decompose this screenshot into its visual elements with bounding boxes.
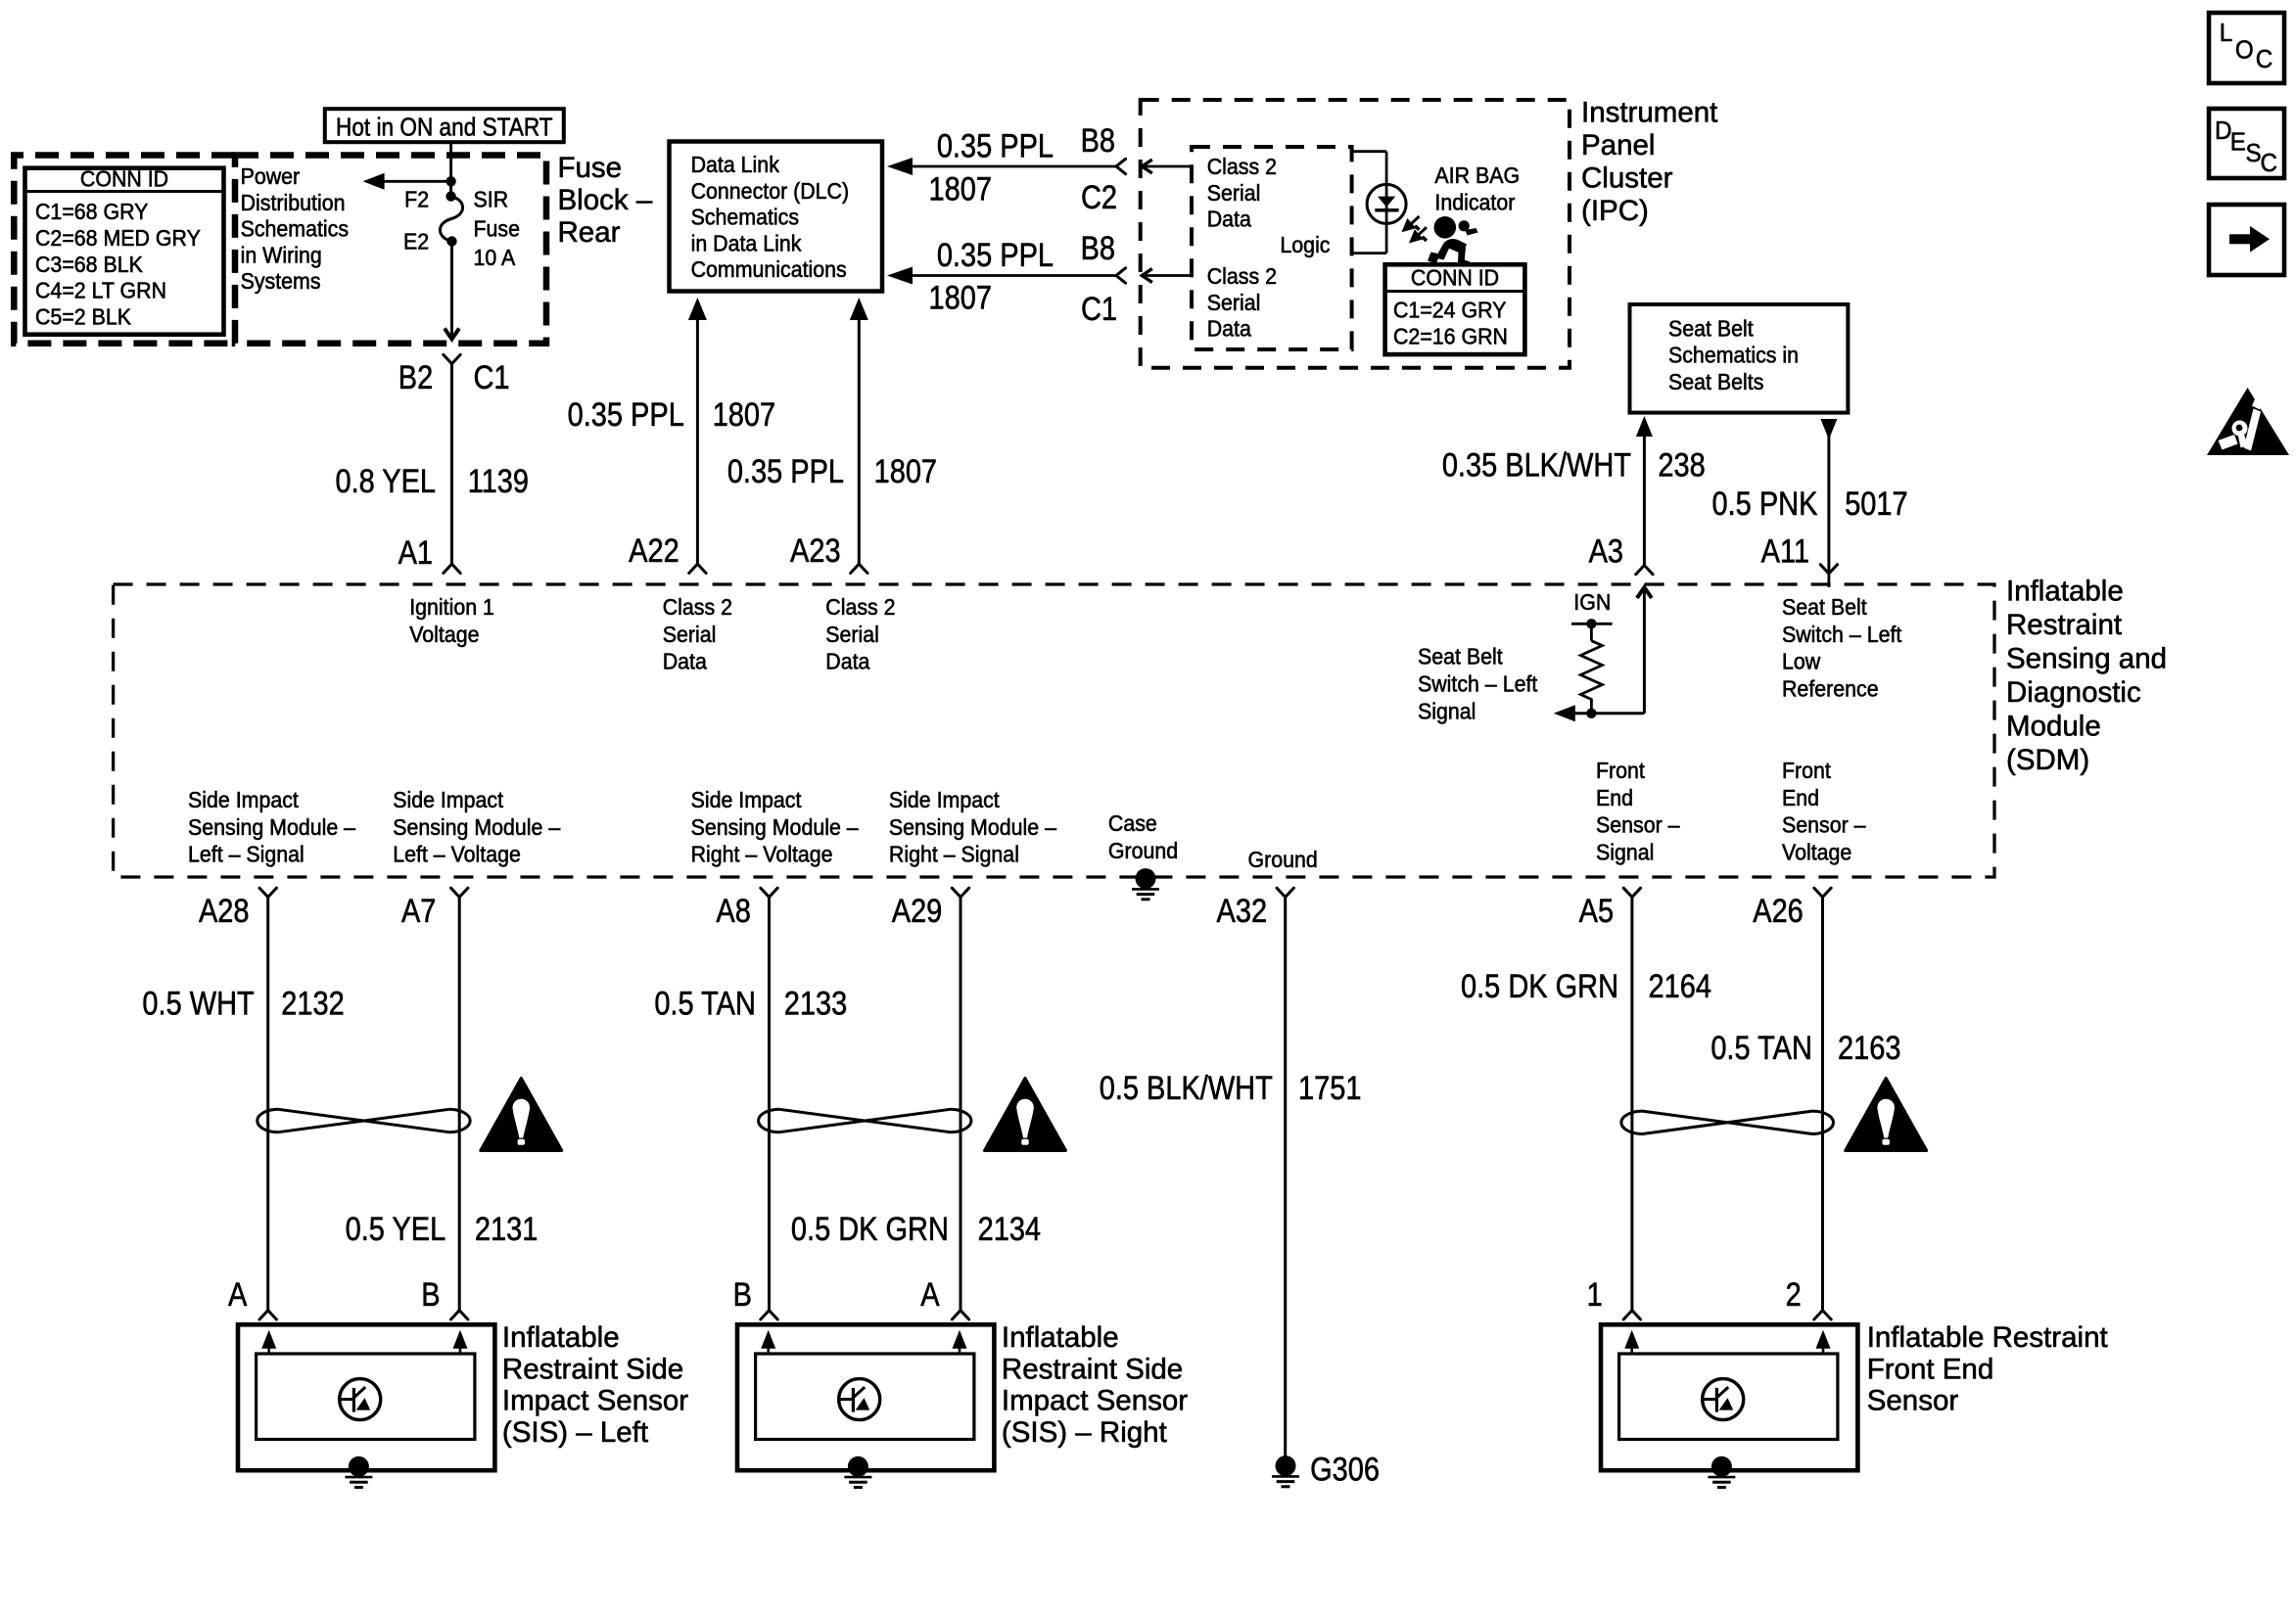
svg-text:0.35 PPL: 0.35 PPL	[937, 236, 1054, 274]
svg-text:0.5 TAN: 0.5 TAN	[1710, 1029, 1812, 1067]
caution triangle (front sensor)	[1846, 1079, 1927, 1151]
Data Link Connector (DLC) reference box	[670, 142, 883, 292]
svg-text:Block –: Block –	[558, 184, 653, 216]
svg-text:Front End: Front End	[1867, 1353, 1994, 1385]
svg-text:Instrument: Instrument	[1581, 97, 1717, 129]
svg-text:C1=68 GRY: C1=68 GRY	[35, 199, 149, 224]
svg-text:Connector (DLC): Connector (DLC)	[691, 178, 850, 204]
svg-text:Ignition 1: Ignition 1	[409, 594, 494, 620]
svg-text:Class 2: Class 2	[1207, 154, 1277, 179]
svg-text:1: 1	[1587, 1275, 1603, 1314]
svg-text:B8: B8	[1081, 229, 1115, 267]
wire A5 0.5 DK GRN 2164	[1630, 898, 1633, 1311]
svg-text:A8: A8	[716, 891, 750, 929]
svg-text:A1: A1	[398, 533, 433, 572]
connector fork at SDM bottom x=273.7	[259, 888, 276, 897]
DESC nav icon	[2209, 109, 2284, 178]
svg-text:A26: A26	[1753, 891, 1804, 929]
svg-text:SIR: SIR	[474, 187, 509, 212]
svg-text:0.35 BLK/WHT: 0.35 BLK/WHT	[1442, 445, 1631, 484]
svg-text:Class 2: Class 2	[1207, 263, 1277, 289]
inflatable restraint side impact sensor right	[737, 1324, 994, 1470]
svg-text:(IPC): (IPC)	[1581, 195, 1649, 227]
svg-text:End: End	[1782, 785, 1819, 810]
svg-text:Schematics: Schematics	[241, 216, 349, 242]
svg-text:Sensing Module –: Sensing Module –	[188, 814, 356, 840]
connector pin A1 into SDM	[444, 564, 460, 573]
svg-text:Side Impact: Side Impact	[691, 787, 802, 812]
svg-text:0.5 TAN: 0.5 TAN	[654, 984, 756, 1022]
svg-text:Sensor –: Sensor –	[1596, 812, 1680, 838]
svg-text:Communications: Communications	[691, 256, 847, 282]
wire A22 to DLC with arrow	[688, 298, 707, 320]
svg-text:238: 238	[1658, 445, 1705, 484]
svg-text:Rear: Rear	[558, 216, 621, 249]
svg-text:Sensor –: Sensor –	[1782, 812, 1866, 838]
svg-text:Front: Front	[1782, 758, 1831, 783]
svg-text:Sensing Module –: Sensing Module –	[691, 814, 860, 840]
svg-text:Right – Signal: Right – Signal	[889, 842, 1019, 867]
wire class 2 serial data (IPC pin C1 to DLC)	[887, 267, 913, 285]
wire A7 0.5 YEL 2131	[458, 898, 461, 1311]
svg-text:Signal: Signal	[1418, 699, 1476, 724]
LOC nav icon	[2209, 13, 2284, 83]
svg-text:End: End	[1596, 785, 1633, 810]
svg-text:0.5 PNK: 0.5 PNK	[1712, 485, 1818, 523]
svg-text:Sensor: Sensor	[1867, 1385, 1959, 1417]
svg-text:0.35 PPL: 0.35 PPL	[727, 452, 844, 490]
svg-text:A28: A28	[199, 891, 250, 929]
wire from fuse to fuse block edge	[450, 242, 453, 340]
svg-text:CONN ID: CONN ID	[1411, 265, 1499, 291]
svg-text:A32: A32	[1217, 891, 1268, 929]
svg-text:A: A	[920, 1275, 940, 1314]
svg-text:0.35 PPL: 0.35 PPL	[568, 395, 684, 434]
svg-text:A3: A3	[1589, 531, 1623, 570]
inflatable restraint side impact sensor left	[238, 1324, 494, 1470]
branch arrow to power distribution schematics	[373, 180, 451, 183]
wire A32 0.5 BLK/WHT 1751 to G306	[1284, 898, 1287, 1457]
svg-text:Logic: Logic	[1280, 232, 1330, 257]
svg-text:CONN ID: CONN ID	[80, 166, 168, 192]
svg-text:Serial: Serial	[663, 622, 717, 647]
svg-text:0.5 WHT: 0.5 WHT	[142, 984, 254, 1022]
svg-text:Schematics: Schematics	[691, 205, 799, 230]
svg-text:Impact Sensor: Impact Sensor	[1002, 1385, 1188, 1417]
svg-text:Power: Power	[241, 163, 301, 189]
svg-text:1807: 1807	[874, 452, 937, 490]
air bag pictograph	[1434, 216, 1457, 239]
pin A3 internal arrow	[1637, 587, 1652, 598]
internal wire to seat belt switch signal	[1570, 712, 1644, 715]
fuse block dashed enclosure (left compartment with CONN ID)	[14, 156, 235, 344]
twisted pair (SIS right)	[759, 1109, 779, 1132]
svg-text:C1: C1	[1081, 290, 1117, 328]
svg-text:(SIS) – Left: (SIS) – Left	[502, 1416, 648, 1449]
svg-text:Inflatable: Inflatable	[2006, 576, 2124, 608]
seat belt schematics reference box	[1630, 304, 1849, 413]
svg-text:1139: 1139	[468, 462, 529, 500]
svg-text:Data: Data	[663, 649, 708, 674]
svg-text:2: 2	[1786, 1275, 1802, 1314]
svg-text:Side Impact: Side Impact	[393, 787, 503, 812]
IPC logic inner dashed box	[1192, 147, 1352, 349]
CONN ID table (IPC connectors)	[1385, 264, 1525, 354]
Instrument Panel Cluster dashed enclosure	[1141, 100, 1570, 368]
wire from Hot box down to fuse	[449, 142, 452, 196]
svg-text:Serial: Serial	[1207, 290, 1261, 315]
svg-text:C: C	[2261, 149, 2277, 177]
svg-text:Data Link: Data Link	[691, 152, 780, 177]
svg-text:Restraint: Restraint	[2006, 609, 2122, 641]
svg-text:Seat Belt: Seat Belt	[1782, 594, 1867, 620]
svg-text:A23: A23	[790, 531, 841, 570]
svg-text:Inflatable: Inflatable	[1002, 1321, 1119, 1354]
inflatable restraint front end sensor	[1601, 1324, 1857, 1470]
svg-text:Ground: Ground	[1248, 847, 1318, 872]
svg-text:E: E	[2230, 128, 2246, 157]
svg-text:Left – Voltage: Left – Voltage	[393, 842, 521, 867]
svg-text:Data: Data	[825, 649, 870, 674]
svg-text:Restraint Side: Restraint Side	[502, 1353, 683, 1385]
svg-text:Impact Sensor: Impact Sensor	[502, 1385, 688, 1417]
svg-text:B: B	[421, 1275, 440, 1314]
svg-text:Signal: Signal	[1596, 840, 1654, 865]
svg-text:Inflatable: Inflatable	[502, 1321, 620, 1354]
svg-text:Serial: Serial	[1207, 180, 1261, 206]
power feed label box "Hot in ON and START"	[325, 109, 564, 142]
svg-text:2132: 2132	[281, 984, 344, 1022]
svg-text:Inflatable Restraint: Inflatable Restraint	[1867, 1321, 2108, 1354]
svg-text:1807: 1807	[929, 169, 992, 208]
svg-text:Ground: Ground	[1108, 838, 1178, 863]
svg-text:C2=16 GRN: C2=16 GRN	[1393, 324, 1508, 349]
svg-text:Case: Case	[1108, 810, 1157, 836]
svg-text:Class 2: Class 2	[663, 594, 732, 620]
svg-text:B: B	[733, 1275, 752, 1314]
svg-text:2131: 2131	[475, 1210, 538, 1248]
CONN ID table (fuse block connectors)	[25, 168, 224, 335]
connector B2/C1 (fuse block to harness)	[444, 354, 460, 363]
svg-text:(SIS) – Right: (SIS) – Right	[1002, 1416, 1167, 1449]
svg-text:Low: Low	[1782, 649, 1821, 674]
svg-text:Seat Belt: Seat Belt	[1668, 316, 1754, 342]
connector fork at SDM bottom x=785.5	[761, 888, 777, 897]
svg-text:Module: Module	[2006, 711, 2101, 743]
svg-text:D: D	[2215, 116, 2231, 145]
LED emission arrows	[1404, 216, 1427, 241]
next-page arrow icon	[2209, 205, 2284, 275]
airbag warning triangle icon	[2207, 388, 2289, 455]
wire 0.5 PNK 5017 from seat belt schematics	[1820, 419, 1837, 439]
svg-text:2134: 2134	[978, 1210, 1041, 1248]
svg-text:C1=24 GRY: C1=24 GRY	[1393, 298, 1507, 323]
svg-text:Voltage: Voltage	[1782, 840, 1851, 865]
caution triangle (SIS left)	[481, 1079, 562, 1151]
connector C1 at IPC boundary	[1116, 268, 1126, 283]
svg-text:2163: 2163	[1838, 1029, 1900, 1067]
connector fork at SDM bottom x=1666.9	[1623, 888, 1640, 897]
svg-text:S: S	[2246, 139, 2262, 167]
wire 0.35 BLK/WHT 238 to seat belt schematics	[1636, 416, 1653, 437]
svg-text:Right – Voltage: Right – Voltage	[691, 842, 833, 867]
svg-text:L: L	[2220, 19, 2232, 47]
svg-text:Data: Data	[1207, 316, 1252, 342]
seat belt switch pull-up resistor	[1590, 624, 1593, 640]
svg-text:A5: A5	[1579, 891, 1614, 929]
svg-text:Data: Data	[1207, 207, 1252, 232]
svg-text:in Data Link: in Data Link	[691, 231, 803, 256]
svg-text:Front: Front	[1596, 758, 1645, 783]
svg-text:0.5 DK GRN: 0.5 DK GRN	[791, 1210, 949, 1248]
twisted pair (SIS left)	[258, 1109, 278, 1132]
fuse SIR Fuse 10 A (F2/E2)	[445, 191, 455, 201]
svg-text:O: O	[2235, 36, 2254, 65]
svg-text:1807: 1807	[929, 278, 992, 316]
svg-text:B8: B8	[1081, 121, 1115, 160]
svg-text:Distribution: Distribution	[241, 190, 346, 215]
svg-text:Schematics in: Schematics in	[1668, 343, 1799, 368]
connector fork at SDM bottom x=1861.5	[1814, 888, 1831, 897]
connector fork at SDM bottom x=981	[952, 888, 968, 897]
svg-text:0.8 YEL: 0.8 YEL	[335, 462, 436, 500]
svg-text:0.35 PPL: 0.35 PPL	[937, 126, 1054, 164]
AIR BAG indicator LED circuit	[1352, 150, 1387, 153]
svg-text:C: C	[2256, 46, 2273, 74]
svg-text:Fuse: Fuse	[558, 152, 623, 184]
wire A8 0.5 TAN 2133	[768, 898, 771, 1311]
svg-text:C5=2 BLK: C5=2 BLK	[35, 304, 131, 330]
svg-text:0.5 YEL: 0.5 YEL	[346, 1210, 446, 1248]
svg-text:Seat Belt: Seat Belt	[1418, 644, 1503, 670]
svg-text:IGN: IGN	[1573, 589, 1611, 615]
svg-text:C4=2 LT GRN: C4=2 LT GRN	[35, 278, 166, 303]
svg-text:F2: F2	[404, 187, 429, 212]
SDM dashed enclosure	[114, 584, 1994, 877]
ground G306	[1276, 1455, 1296, 1476]
svg-text:Systems: Systems	[241, 268, 321, 294]
svg-text:Class 2: Class 2	[825, 594, 895, 620]
svg-text:C1: C1	[474, 358, 510, 396]
svg-text:(SDM): (SDM)	[2006, 744, 2089, 776]
svg-text:0.5 BLK/WHT: 0.5 BLK/WHT	[1100, 1069, 1273, 1107]
svg-text:Sensing and: Sensing and	[2006, 643, 2167, 675]
svg-text:5017: 5017	[1845, 485, 1907, 523]
svg-text:A11: A11	[1761, 531, 1809, 570]
svg-text:G306: G306	[1310, 1450, 1380, 1488]
wire A29 0.5 DK GRN 2134	[960, 898, 962, 1311]
connector fork at SDM bottom x=469.2	[451, 888, 468, 897]
svg-text:1807: 1807	[713, 395, 775, 434]
svg-text:C2: C2	[1081, 178, 1117, 216]
svg-text:Seat Belts: Seat Belts	[1668, 369, 1763, 394]
svg-text:Panel: Panel	[1581, 129, 1655, 162]
svg-text:A22: A22	[629, 531, 679, 570]
svg-text:C2=68 MED GRY: C2=68 MED GRY	[35, 225, 201, 251]
svg-text:Serial: Serial	[825, 622, 879, 647]
svg-text:2133: 2133	[784, 984, 847, 1022]
caution triangle (SIS right)	[985, 1079, 1066, 1151]
svg-text:Restraint Side: Restraint Side	[1002, 1353, 1183, 1385]
connector fork at SDM bottom x=1312.7	[1277, 888, 1293, 897]
svg-text:Side Impact: Side Impact	[889, 787, 1000, 812]
svg-text:AIR BAG: AIR BAG	[1434, 162, 1520, 188]
svg-text:Sensing Module –: Sensing Module –	[889, 814, 1057, 840]
svg-text:Diagnostic: Diagnostic	[2006, 676, 2141, 709]
svg-text:Left – Signal: Left – Signal	[188, 842, 305, 867]
wire A23 to DLC with arrow	[850, 298, 868, 320]
svg-text:2164: 2164	[1649, 967, 1711, 1005]
svg-text:Side Impact: Side Impact	[188, 787, 299, 812]
svg-text:C3=68 BLK: C3=68 BLK	[35, 252, 143, 277]
svg-text:10 A: 10 A	[474, 245, 516, 270]
svg-text:Fuse: Fuse	[474, 216, 521, 242]
wire class 2 serial data (IPC pin C2 to DLC)	[887, 158, 913, 175]
svg-text:Switch – Left: Switch – Left	[1418, 671, 1537, 697]
wire A26 0.5 TAN 2163	[1821, 898, 1824, 1311]
svg-text:Sensing Module –: Sensing Module –	[393, 814, 561, 840]
twisted pair (front end sensor)	[1621, 1111, 1643, 1133]
connector C2 at IPC boundary	[1116, 159, 1126, 173]
svg-text:0.5 DK GRN: 0.5 DK GRN	[1461, 967, 1618, 1005]
svg-text:Hot in ON and START: Hot in ON and START	[336, 114, 553, 142]
svg-text:E2: E2	[403, 229, 429, 254]
svg-text:B2: B2	[398, 358, 433, 396]
wire A28 0.5 WHT 2132	[266, 898, 269, 1311]
svg-text:A29: A29	[892, 891, 943, 929]
svg-text:Switch – Left: Switch – Left	[1782, 622, 1901, 647]
svg-text:in Wiring: in Wiring	[241, 243, 322, 268]
svg-text:Reference: Reference	[1782, 676, 1879, 702]
IGN rail	[1571, 623, 1613, 625]
svg-text:Cluster: Cluster	[1581, 162, 1673, 195]
fuse block dashed enclosure (right compartment, power distribution)	[235, 156, 546, 344]
svg-text:1751: 1751	[1298, 1069, 1361, 1107]
svg-text:A: A	[228, 1275, 248, 1314]
svg-text:Voltage: Voltage	[409, 622, 479, 647]
svg-text:Indicator: Indicator	[1434, 190, 1516, 215]
svg-text:A7: A7	[401, 891, 436, 929]
